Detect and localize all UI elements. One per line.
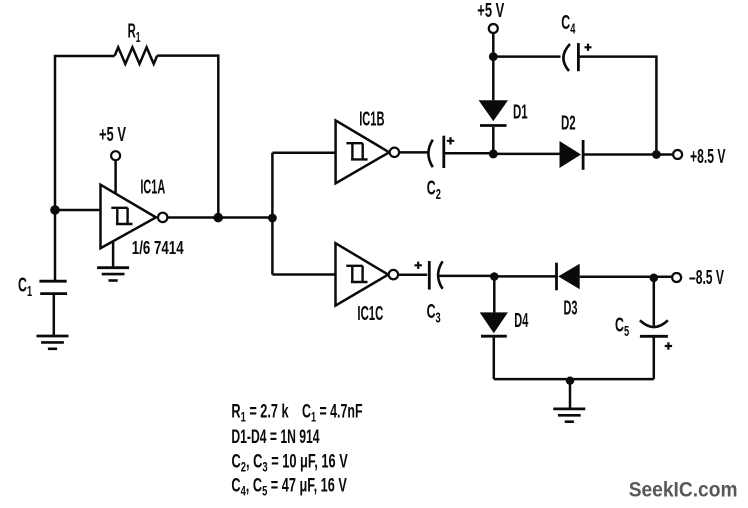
svg-text:C4, C5 = 47 μF, 16 V: C4, C5 = 47 μF, 16 V bbox=[231, 475, 347, 499]
svg-text:IC1B: IC1B bbox=[359, 108, 384, 130]
svg-text:+8.5 V: +8.5 V bbox=[690, 145, 725, 168]
svg-text:D1: D1 bbox=[513, 101, 528, 123]
svg-text:1/6 7414: 1/6 7414 bbox=[132, 238, 184, 259]
svg-text:+5 V: +5 V bbox=[477, 0, 505, 22]
svg-text:D4: D4 bbox=[514, 309, 528, 331]
svg-text:+5 V: +5 V bbox=[99, 123, 127, 146]
svg-text:C2, C3 = 10 μF, 16 V: C2, C3 = 10 μF, 16 V bbox=[232, 451, 348, 475]
svg-text:IC1C: IC1C bbox=[357, 303, 383, 325]
svg-text:D1-D4 = 1N 914: D1-D4 = 1N 914 bbox=[231, 428, 319, 448]
svg-text:R1 = 2.7 k: R1 = 2.7 k bbox=[231, 401, 288, 425]
svg-text:SeekIC.com: SeekIC.com bbox=[629, 479, 738, 502]
svg-text:D2: D2 bbox=[561, 113, 576, 135]
svg-text:IC1A: IC1A bbox=[140, 176, 165, 198]
svg-text:D3: D3 bbox=[564, 297, 578, 319]
svg-text:–8.5 V: –8.5 V bbox=[689, 266, 724, 289]
